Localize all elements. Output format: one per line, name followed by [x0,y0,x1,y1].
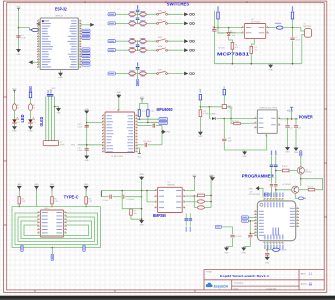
svg-text:GND: GND [12,131,17,133]
svg-text:SW6: SW6 [158,46,162,48]
svg-text:MCP73831: MCP73831 [217,52,250,57]
svg-text:Q2 2N7002: Q2 2N7002 [282,184,291,186]
svg-text:SW5: SW5 [158,37,162,39]
svg-text:OLED: OLED [39,117,44,127]
svg-text:ESP-32: ESP-32 [56,16,64,18]
svg-text:D1 1N5819: D1 1N5819 [207,114,216,116]
svg-text:VCC: VCC [71,145,76,147]
svg-text:SW3: SW3 [158,10,162,12]
svg-text:MPU6050: MPU6050 [157,107,174,112]
svg-text:GND: GND [242,156,247,158]
svg-text:10uF: 10uF [21,38,26,40]
svg-text:GND: GND [166,132,171,134]
svg-text:ESP-32: ESP-32 [55,6,67,11]
svg-text:Sheet:: Sheet: [301,282,308,285]
svg-text:4.7uF: 4.7uF [296,40,300,42]
svg-text:GND: GND [268,69,273,71]
svg-text:SW4: SW4 [158,19,162,21]
svg-text:GND: GND [28,131,33,133]
svg-text:C12 0.1uF: C12 0.1uF [143,141,152,143]
svg-text:BMP280: BMP280 [168,185,175,187]
svg-text:MCP73831: MCP73831 [251,22,260,24]
svg-text:REV:: REV: [301,273,306,275]
svg-text:GND: GND [34,184,39,186]
svg-text:U1 MPU-6050: U1 MPU-6050 [111,156,123,158]
svg-text:VCC: VCC [137,156,142,158]
svg-text:R9 100K: R9 100K [232,121,239,123]
svg-text:LED: LED [20,115,25,123]
svg-text:U4 AP2112K-3.3TRG1: U4 AP2112K-3.3TRG1 [259,107,277,110]
svg-text:GND: GND [58,77,63,79]
svg-text:Drawn By:: Drawn By: [267,287,277,290]
svg-text:GND: GND [139,174,144,176]
svg-text:GND: GND [50,184,55,186]
svg-text:SWITCHES: SWITCHES [167,2,190,7]
svg-text:R2 4700: R2 4700 [218,48,224,50]
svg-text:D2: D2 [34,122,36,124]
svg-text:Red: Red [232,35,235,37]
svg-text:+3.3V: +3.3V [287,111,294,113]
svg-text:2N7002: 2N7002 [305,172,311,174]
svg-text:C1 4.7uF: C1 4.7uF [217,33,224,35]
svg-text:GND: GND [117,92,122,94]
svg-text:GND: GND [56,112,61,114]
svg-text:VBAT: VBAT [199,88,202,94]
svg-text:470: 470 [235,47,238,49]
svg-text:POWER: POWER [299,115,313,120]
svg-text:USB-C: USB-C [44,208,50,210]
svg-text:SS34: SS34 [228,108,232,110]
svg-text:VBUS: VBUS [213,25,215,31]
svg-text:Date:: Date: [234,287,240,290]
svg-text:GND: GND [242,253,247,255]
svg-text:GND: GND [17,184,22,186]
svg-text:EasyEDA: EasyEDA [214,285,229,289]
svg-text:GND: GND [198,136,203,138]
svg-text:R10 1K: R10 1K [282,166,289,168]
svg-text:C3 10uF: C3 10uF [235,236,241,238]
svg-text:GND: GND [85,160,90,162]
svg-text:BATTERY: BATTERY [303,25,312,28]
svg-text:GND: GND [285,151,290,153]
svg-text:GND: GND [294,152,299,154]
svg-text:GND: GND [16,54,21,56]
svg-text:GND: GND [224,253,229,255]
svg-text:GND: GND [139,225,144,227]
svg-text:GND: GND [248,188,253,190]
svg-text:CP2102-GMR: CP2102-GMR [249,194,261,196]
svg-text:D1: D1 [18,122,20,124]
svg-text:C14: C14 [289,128,292,130]
svg-text:C6 2.2nF: C6 2.2nF [150,122,158,124]
svg-text:C4: C4 [268,180,270,182]
svg-text:C4 100nF: C4 100nF [127,199,134,201]
svg-text:Company:: Company: [234,283,244,285]
svg-text:GND: GND [265,262,270,264]
svg-text:OLED: OLED [60,145,66,147]
svg-text:TYPE-C: TYPE-C [64,194,79,199]
svg-text:SW7: SW7 [158,70,162,72]
svg-text:Esp32 Smart-watch Rev1.1: Esp32 Smart-watch Rev1.1 [220,274,269,278]
svg-text:C16: C16 [298,128,301,130]
svg-text:TITLE:: TITLE: [206,271,212,273]
svg-text:GND: GND [84,184,89,186]
svg-text:C5 1uF: C5 1uF [102,200,108,202]
svg-text:PROGRAMMER: PROGRAMMER [242,174,274,179]
svg-text:R12 1K: R12 1K [280,250,287,252]
svg-text:BMP280: BMP280 [153,213,167,218]
svg-text:R11 1K: R11 1K [308,186,314,188]
